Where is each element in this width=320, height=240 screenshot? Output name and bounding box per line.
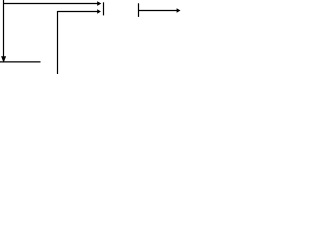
arrowhead right top	[97, 1, 101, 6]
wire top horizontal	[3, 3, 98, 5]
wire bottom horizontal	[0, 61, 41, 63]
wire left vertical	[3, 0, 5, 57]
node right vertical bar	[138, 3, 140, 17]
arrowhead down	[1, 56, 6, 63]
arrowhead right second	[97, 9, 101, 14]
wire corner vertical	[57, 11, 59, 74]
arrowhead right end	[177, 8, 181, 13]
wire right horizontal	[139, 10, 178, 12]
node short vertical bar	[103, 2, 105, 15]
wire second horizontal	[58, 11, 98, 13]
